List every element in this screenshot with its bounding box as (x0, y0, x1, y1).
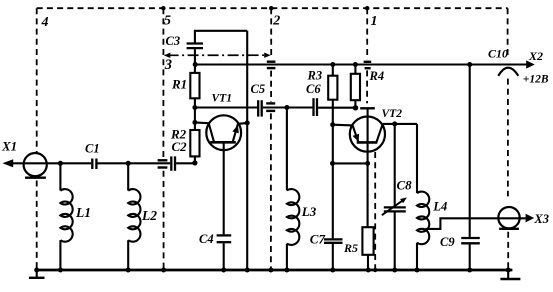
svg-text:C7: C7 (310, 231, 326, 246)
svg-text:L1: L1 (75, 205, 91, 220)
shield left wall (dashed, through connector X1) (36, 8, 38, 269)
wire: emitter node to R3 line (333, 162, 368, 164)
wire: VT1 emitter line (C3 loop to ground bus) (246, 31, 248, 270)
junction bus / right wall (506, 268, 511, 273)
junction rail / R4 (353, 62, 358, 67)
resistor R1 (190, 65, 199, 123)
shield compartment wall 1 (lower part) (374, 152, 376, 270)
svg-text:3: 3 (164, 57, 172, 73)
svg-text:C9: C9 (440, 235, 455, 249)
junction bus / L3 (284, 268, 289, 273)
junction input wire / L2 (126, 161, 131, 166)
svg-text:VT2: VT2 (382, 108, 403, 120)
inductor L1 (60, 163, 72, 270)
shield enclosure top dashed border (37, 7, 508, 9)
junction top border / wall 5 (161, 6, 165, 10)
junction bus / L1 (58, 268, 63, 273)
junction R3 line / R5 wire (330, 161, 335, 166)
wire: R3 bottom line down to C7 (332, 100, 334, 239)
shield right wall (dashed, through C10 and connector X3) (507, 8, 510, 270)
svg-text:R1: R1 (171, 77, 187, 92)
junction rail / C3,R1 (193, 62, 198, 67)
capacitor C7 (324, 239, 343, 270)
junction coupling wire / L3 (284, 105, 289, 110)
svg-text:C1: C1 (85, 142, 100, 156)
capacitor C6 (314, 98, 318, 116)
wire: C6 to R4 bottom (VT2 base node) (318, 107, 355, 109)
junction top border / wall 1 (365, 6, 369, 10)
svg-text:C4: C4 (199, 232, 214, 246)
svg-text:4: 4 (41, 15, 49, 30)
svg-text:C6: C6 (306, 82, 321, 96)
connector X2 arrow (power output) (526, 60, 535, 68)
junction input wire / L1 (58, 161, 63, 166)
junction R3 line / VT2 emitter wire (330, 122, 335, 127)
svg-text:C5: C5 (251, 82, 266, 96)
wire: C5 to C6 (263, 106, 313, 108)
svg-text:C3: C3 (166, 34, 181, 48)
svg-text:X3: X3 (533, 212, 549, 226)
svg-text:X1: X1 (1, 139, 17, 154)
junction VT1 emitter nub (245, 120, 250, 125)
capacitor C4 (217, 235, 232, 270)
svg-text:C10: C10 (488, 46, 508, 60)
inductor L4 (417, 124, 429, 270)
shield compartment wall 1 (middle part) (366, 70, 368, 103)
wire: C2 to R2 (176, 162, 195, 164)
svg-text:R5: R5 (343, 241, 358, 255)
wire: +12V power rail (195, 63, 527, 65)
svg-text:L2: L2 (141, 208, 157, 223)
shield compartment wall 2 (270, 8, 272, 269)
svg-text:X2: X2 (528, 49, 543, 63)
junction bus / R5 (366, 268, 371, 273)
feedthrough of input wire through wall 5 (158, 160, 168, 167)
resistor R4 (351, 65, 360, 108)
junction bus / L2 (126, 268, 131, 273)
junction bus / wall 1 (373, 268, 377, 272)
junction top border / wall 2 (269, 6, 273, 10)
capacitor C3 (187, 31, 248, 65)
svg-text:+12В: +12В (523, 74, 549, 86)
junction bus / L4 (415, 268, 420, 273)
junction bus / C9 (467, 268, 472, 273)
shield compartment wall 1 (upper part) (366, 8, 368, 59)
ground symbol right (500, 270, 520, 279)
junction rail / R3 (330, 62, 335, 67)
junction bus / C4 (221, 268, 226, 273)
inductor L2 (128, 163, 140, 270)
junction R1 line / VT1 collector (192, 120, 197, 125)
svg-text:L3: L3 (301, 204, 317, 219)
capacitor C10 (feed-through on shield wall) (498, 68, 518, 76)
svg-text:1: 1 (371, 14, 378, 29)
capacitor C5 (258, 100, 262, 116)
svg-text:5: 5 (164, 14, 171, 29)
feedthrough of +12V rail through wall 1 (364, 62, 372, 68)
transistor VT1 (195, 115, 247, 234)
shield compartment wall 5 (162, 8, 164, 269)
svg-text:C2: C2 (172, 139, 188, 154)
inductor L3 (287, 108, 299, 271)
capacitor C1 (92, 159, 96, 170)
resistor R3 (328, 65, 337, 100)
svg-text:R4: R4 (369, 69, 385, 83)
transistor VT2 (333, 108, 417, 227)
junction bus / wall 2 (268, 268, 273, 273)
junction bus / wall 5 (161, 268, 166, 273)
capacitor C9 (461, 65, 480, 271)
feedthrough of coupling wire through wall 2 (266, 103, 275, 111)
resistor R2 (190, 122, 199, 163)
wire: R1 bottom to C5 (oscillator output node) (195, 106, 257, 108)
feedthrough of +12V rail through wall 2 (267, 62, 276, 68)
svg-text:R3: R3 (307, 69, 323, 83)
junction rail / C9 feed (467, 62, 472, 67)
connector X1 (3, 153, 92, 178)
resistor R5 (362, 227, 373, 270)
ground symbol left (29, 270, 45, 278)
junction VT2 collector / C8 (392, 121, 397, 126)
svg-text:2: 2 (272, 14, 280, 29)
svg-text:C8: C8 (397, 178, 413, 193)
capacitor C8 (variable) (382, 124, 407, 270)
svg-text:L4: L4 (432, 199, 447, 213)
junction bus / VT1 emitter line (245, 268, 250, 273)
screen 3 boundary (dash-dot line with arrows) (164, 53, 271, 59)
capacitor C2 (171, 156, 175, 170)
wire: C1 to C2 (98, 162, 171, 164)
junction VT2 emitter / R5 (365, 161, 370, 166)
junction at R2 bottom corner (192, 160, 197, 165)
junction bus / left wall (34, 268, 39, 273)
junction base node / R4 (353, 105, 358, 110)
junction bus / C7 (330, 268, 335, 273)
junction R1 line / coupling wire (192, 105, 197, 110)
junction bus / C8 (392, 268, 397, 273)
wire: L4 tap to X3 (425, 218, 525, 229)
ground bus (37, 269, 513, 272)
connector X3 (498, 207, 534, 229)
svg-text:VT1: VT1 (212, 93, 232, 105)
